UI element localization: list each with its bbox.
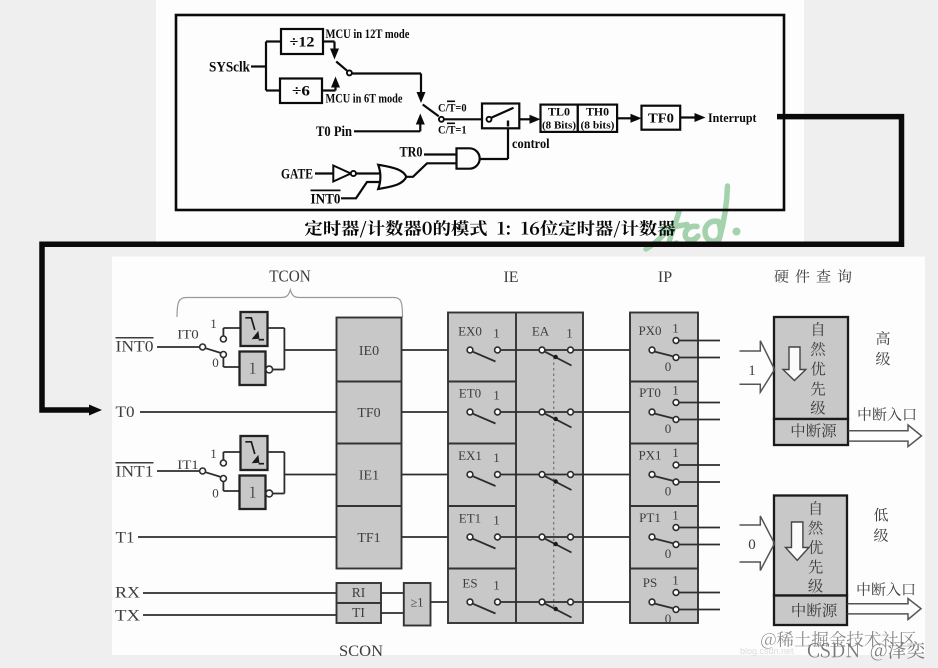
svg-text:PX1: PX1 — [638, 448, 661, 463]
svg-text:INT0: INT0 — [116, 338, 154, 355]
svg-text:MCU in 12T mode: MCU in 12T mode — [326, 27, 410, 41]
svg-text:EX0: EX0 — [458, 324, 482, 339]
svg-text:EX1: EX1 — [458, 448, 482, 463]
svg-text:IE: IE — [503, 269, 518, 286]
svg-text:1: 1 — [672, 508, 679, 523]
svg-text:IE0: IE0 — [359, 344, 379, 359]
svg-text:IT1: IT1 — [177, 457, 199, 472]
svg-text:PX0: PX0 — [638, 323, 661, 338]
svg-text:1: 1 — [672, 321, 679, 336]
svg-text:(8 Bits): (8 Bits) — [542, 120, 576, 132]
svg-text:1: 1 — [493, 326, 500, 341]
svg-text:C/T=1: C/T=1 — [438, 123, 467, 137]
svg-text:1: 1 — [210, 446, 217, 461]
svg-text:0: 0 — [212, 355, 219, 370]
svg-text:TCON: TCON — [269, 267, 311, 286]
svg-text:T0 Pin: T0 Pin — [316, 124, 352, 140]
svg-text:TL0: TL0 — [548, 107, 570, 119]
svg-text:T1: T1 — [116, 529, 135, 546]
svg-text:0: 0 — [665, 546, 672, 561]
svg-text:PT1: PT1 — [639, 510, 661, 525]
svg-text:0: 0 — [665, 359, 672, 374]
svg-text:≥1: ≥1 — [410, 595, 423, 609]
svg-text:control: control — [512, 136, 550, 151]
svg-text:SCON: SCON — [339, 643, 383, 660]
svg-text:TR0: TR0 — [400, 145, 423, 161]
svg-text:IP: IP — [658, 269, 672, 286]
svg-text:1: 1 — [210, 316, 217, 331]
svg-text:RX: RX — [115, 584, 140, 601]
svg-text:GATE: GATE — [281, 167, 313, 183]
svg-text:TX: TX — [115, 607, 140, 624]
svg-text:0: 0 — [665, 484, 672, 499]
svg-text:C/T=0: C/T=0 — [438, 101, 467, 115]
svg-text:TF1: TF1 — [357, 531, 380, 546]
svg-text:INT1: INT1 — [116, 463, 154, 480]
svg-text:TF0: TF0 — [648, 111, 674, 126]
svg-text:1: 1 — [672, 383, 679, 398]
svg-text:1: 1 — [672, 573, 679, 588]
svg-text:1: 1 — [493, 388, 500, 403]
svg-text:0: 0 — [748, 537, 756, 553]
svg-text:ES: ES — [462, 576, 477, 591]
svg-text:PS: PS — [643, 575, 657, 590]
svg-text:0: 0 — [212, 486, 219, 501]
svg-text:RI: RI — [352, 585, 366, 600]
svg-text:blog.csdn.net: blog.csdn.net — [740, 646, 794, 656]
svg-text:ET0: ET0 — [459, 386, 481, 401]
svg-text:0: 0 — [665, 611, 672, 626]
svg-text:0: 0 — [665, 421, 672, 436]
svg-text:T0: T0 — [116, 404, 135, 421]
svg-text:ET1: ET1 — [459, 511, 481, 526]
svg-text:TF0: TF0 — [357, 406, 380, 421]
svg-text:INT0: INT0 — [311, 192, 341, 208]
svg-text:1: 1 — [493, 513, 500, 528]
svg-text:1: 1 — [493, 450, 500, 465]
svg-text:÷12: ÷12 — [290, 35, 315, 51]
svg-text:IE1: IE1 — [359, 468, 379, 483]
svg-text:MCU in 6T mode: MCU in 6T mode — [326, 91, 403, 105]
svg-text:1: 1 — [566, 326, 573, 341]
svg-text:TH0: TH0 — [586, 107, 609, 119]
svg-text:1: 1 — [672, 445, 679, 460]
svg-text:TI: TI — [352, 605, 365, 620]
svg-text:(8 bits): (8 bits) — [581, 120, 615, 132]
svg-text:SYSclk: SYSclk — [209, 60, 251, 76]
svg-text:Interrupt: Interrupt — [708, 110, 757, 125]
svg-text:1: 1 — [748, 363, 756, 379]
svg-text:PT0: PT0 — [639, 385, 661, 400]
svg-text:÷6: ÷6 — [292, 84, 310, 100]
svg-text:EA: EA — [532, 324, 550, 339]
svg-text:IT0: IT0 — [177, 327, 199, 342]
svg-text:1: 1 — [493, 578, 500, 593]
